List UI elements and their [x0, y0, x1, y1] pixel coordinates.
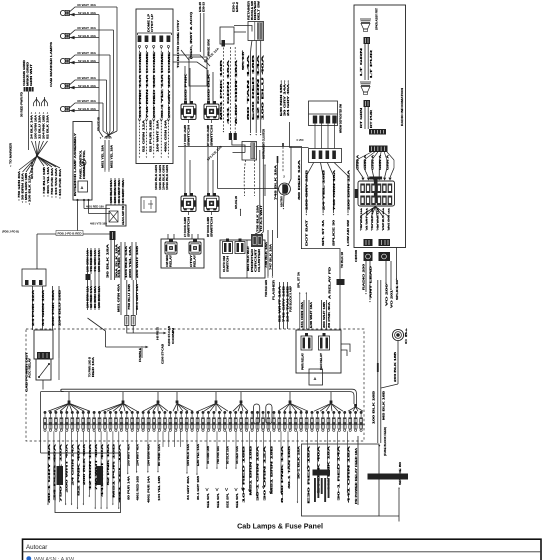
wire B+ drop — [381, 341, 398, 388]
wire relay feed — [32, 286, 35, 330]
label instrument cluster — [262, 129, 265, 159]
svg-text:441 PUR 40A: 441 PUR 40A — [59, 169, 62, 196]
wire cluster pc a — [259, 150, 261, 232]
label radio information — [400, 88, 404, 126]
wire cluster pin feed a — [227, 47, 230, 133]
svg-text:30 WHT 40A: 30 WHT 40A — [77, 76, 96, 80]
svg-text:A: A — [81, 185, 84, 190]
svg-text:34 GRY 40A: 34 GRY 40A — [187, 476, 190, 500]
cluster dimmer box — [220, 240, 265, 278]
svg-text:RADIO INFORMATION: RADIO INFORMATION — [400, 88, 404, 126]
label LT door jamb — [184, 124, 191, 146]
label lt grn — [360, 47, 363, 76]
svg-text:200 WHT 40A: 200 WHT 40A — [128, 444, 131, 466]
svg-text:HEADLAMP SW: HEADLAMP SW — [122, 205, 125, 225]
dome feed wire label — [146, 51, 149, 118]
wire cab feed — [87, 248, 90, 274]
wire cluster pc b — [262, 150, 264, 232]
svg-text:34 GRY 40A: 34 GRY 40A — [122, 180, 125, 203]
label fuse block feed — [384, 427, 387, 456]
svg-text:SWITCH: SWITCH — [211, 216, 214, 237]
wire lighter feed — [218, 188, 279, 190]
connector C-12 — [24, 87, 34, 92]
wire marker lamp 2 return — [98, 37, 100, 39]
label 750 BLK — [257, 205, 260, 232]
svg-text:104 YEL 16B: 104 YEL 16B — [158, 476, 161, 501]
connector bar C-200 — [313, 470, 331, 476]
labels r3 feeds — [301, 301, 331, 328]
svg-text:30-1 YEL 14A DOME: 30-1 YEL 14A DOME — [161, 51, 164, 118]
label dimmer control — [83, 149, 86, 179]
svg-text:E30 WHT 16A: E30 WHT 16A — [310, 301, 313, 328]
dome feed wire label 2 — [151, 119, 153, 152]
cab marker lamp L1 — [60, 3, 117, 16]
label CAB MARKER LAMPS — [49, 42, 53, 87]
cab marker lamp L5 — [60, 99, 103, 112]
svg-text:30-1 WHT 40A: 30-1 WHT 40A — [118, 180, 121, 203]
dome feed pin 2 — [145, 36, 149, 159]
svg-text:C200 ST-CAB: C200 ST-CAB — [168, 326, 171, 346]
wire lamp ground bus — [98, 15, 100, 117]
wire splice drop — [88, 318, 149, 348]
wire FLASHER — [269, 230, 273, 278]
antenna connector B2 — [379, 252, 391, 261]
cluster feed pins — [229, 133, 237, 140]
wire radio tail e — [396, 248, 399, 301]
svg-text:Cab Lamps & Fuse Panel: Cab Lamps & Fuse Panel — [237, 522, 323, 531]
label RT jamb lower — [207, 216, 214, 237]
cab marker lamp L4 — [60, 76, 106, 89]
wire marker lamp 2 feed — [106, 30, 114, 139]
svg-text:TO BLK 18: TO BLK 18 — [341, 251, 344, 268]
svg-text:Autocar: Autocar — [26, 544, 47, 551]
labels retainer buckle — [248, 0, 261, 20]
svg-text:SPLICE 80: SPLICE 80 — [397, 279, 399, 300]
svg-text:748 BRN 18A: 748 BRN 18A — [360, 207, 363, 230]
dome feed wire label — [168, 51, 171, 118]
wire fusible up — [140, 346, 143, 362]
svg-text:LT DOOR JAMB: LT DOOR JAMB — [184, 217, 187, 237]
dimmer connector A — [223, 239, 233, 254]
svg-text:441 RED 18B: 441 RED 18B — [90, 250, 93, 272]
courtesy relay — [189, 239, 201, 254]
svg-text:746 BLK 18A: 746 BLK 18A — [265, 242, 268, 268]
svg-text:100 BLK 12A: 100 BLK 12A — [28, 175, 31, 202]
svg-text:52 PUR 16B: 52 PUR 16B — [151, 119, 153, 152]
wire accessory drop — [305, 163, 313, 247]
svg-text:RETAINER: RETAINER — [248, 0, 251, 20]
wire MS1 a — [104, 140, 106, 172]
wire r3 feeds — [304, 300, 327, 330]
svg-text:C 250: C 250 — [297, 138, 304, 142]
svg-text:100 BRN 12A: 100 BRN 12A — [98, 285, 101, 308]
wire from C-12 — [28, 92, 30, 151]
splice 10A — [173, 55, 211, 69]
label window defroster — [340, 103, 343, 133]
dome feed pin 5 — [167, 36, 171, 159]
dome lamp bracket — [138, 33, 172, 35]
wire jamb feeds — [185, 66, 213, 104]
svg-text:ACC RELAY: ACC RELAY — [29, 357, 32, 378]
label power feed — [21, 92, 24, 117]
wire cab feed — [98, 248, 101, 280]
wire ign feed — [298, 148, 344, 331]
accessory labels — [280, 80, 290, 116]
svg-text:52 BLK 40A: 52 BLK 40A — [78, 107, 96, 111]
svg-text:SEE SPL: SEE SPL — [217, 492, 220, 508]
interior lamp assembly box — [73, 122, 92, 201]
wire cluster down b — [253, 160, 255, 196]
wire PDB feed — [37, 234, 112, 269]
wire relay feed — [52, 286, 55, 330]
svg-text:34 GRN 18A: 34 GRN 18A — [42, 289, 45, 326]
svg-text:FUS BLOCK 5 AMP: FUS BLOCK 5 AMP — [290, 286, 293, 312]
svg-text:104 BLK 14A: 104 BLK 14A — [125, 245, 128, 278]
wire 748 BLK — [274, 156, 278, 238]
wire radio out drops — [361, 207, 389, 229]
svg-text:441 ORN 40A: 441 ORN 40A — [301, 301, 304, 328]
label a relay — [329, 266, 332, 299]
splice S-6 label — [30, 161, 34, 179]
radio out labels — [360, 207, 391, 230]
label CD500 — [355, 249, 358, 262]
svg-text:52 BLK 40A: 52 BLK 40A — [78, 59, 96, 63]
dome feed wire label — [153, 51, 156, 118]
wire fus links feed — [121, 280, 137, 316]
label speaker assy — [376, 7, 379, 30]
svg-text:30 ORN 12A: 30 ORN 12A — [263, 445, 266, 501]
svg-text:80 PUR 14A: 80 PUR 14A — [128, 476, 131, 500]
fuse bus tap node 69 — [48, 392, 90, 412]
dome feed wire label 2 — [157, 119, 160, 152]
wire TWR — [265, 230, 269, 278]
svg-text:MS1 BRN 18B: MS1 BRN 18B — [249, 445, 252, 495]
svg-text:104A BLK GRN: 104A BLK GRN — [159, 165, 162, 190]
wire cab feed — [94, 248, 97, 280]
relay R3 connector A — [301, 333, 312, 350]
cab marker relay — [165, 239, 177, 254]
wire fuse link feed — [136, 242, 139, 280]
svg-text:VO 201: VO 201 — [392, 288, 394, 308]
svg-text:DOT BAT: DOT BAT — [305, 219, 308, 246]
svg-text:FUSIBLE: FUSIBLE — [140, 347, 142, 362]
svg-text:E30 YEL 14A: E30 YEL 14A — [197, 444, 200, 466]
fusible link FL1 — [125, 316, 129, 326]
svg-text:12 BRN 18A: 12 BRN 18A — [89, 443, 92, 490]
wire interior lamp aux — [89, 200, 111, 226]
label MS1 YEL 18A — [102, 145, 105, 168]
label top lnd — [89, 356, 96, 377]
svg-text:104A BLK GRN: 104A BLK GRN — [155, 165, 158, 190]
footer table — [23, 539, 542, 560]
svg-text:MS1 BLK WHT: MS1 BLK WHT — [248, 245, 250, 271]
svg-text:WNDW DEFROSTER SW: WNDW DEFROSTER SW — [340, 103, 343, 133]
fuse block feed lines — [378, 280, 381, 443]
wire radio tail d — [390, 261, 393, 308]
wire radio out arrows — [360, 230, 389, 231]
junction box WHSE BRK — [181, 39, 210, 86]
wire label 104A — [159, 165, 162, 190]
splice S-6 branch — [18, 156, 37, 201]
svg-text:30 BLK 18A: 30 BLK 18A — [107, 243, 110, 278]
svg-text:12 BLU 18A: 12 BLU 18A — [38, 115, 41, 139]
radio bottom connector B — [379, 239, 391, 246]
wire headlamp switch feed — [110, 178, 113, 205]
svg-text:52 BLK 40A: 52 BLK 40A — [78, 11, 96, 15]
dome lamp symbol — [80, 160, 86, 166]
svg-text:100 WHT 16A: 100 WHT 16A — [157, 119, 160, 152]
wire relay feeds — [168, 234, 198, 239]
radio harness labels — [356, 154, 389, 170]
svg-text:SPL ST 3A: SPL ST 3A — [297, 272, 300, 288]
wire splice 10B drop — [217, 147, 219, 189]
wire fuse link feed — [125, 242, 128, 280]
wire retainer down a — [250, 41, 252, 136]
wire jamb feeds 2 — [185, 147, 213, 197]
wire marker lamp 4 feed — [107, 80, 111, 139]
wire splice 29 — [240, 209, 242, 217]
seat belt connector — [248, 22, 264, 41]
svg-text:104 WHT 40A: 104 WHT 40A — [137, 444, 140, 466]
svg-text:GRN A: GRN A — [379, 154, 382, 170]
door switch box — [141, 197, 156, 212]
svg-text:104 BRN 40A: 104 BRN 40A — [148, 444, 151, 466]
svg-text:LOW AIR SW: LOW AIR SW — [347, 219, 350, 246]
fuse feed splice — [377, 363, 379, 372]
headlamp switch — [106, 205, 126, 226]
wire cluster pin feed b — [235, 47, 238, 133]
radio information box — [354, 5, 406, 248]
wire fus link out — [127, 326, 160, 334]
svg-text:748 BLK 18A: 748 BLK 18A — [274, 164, 277, 200]
svg-text:SPLICE 9B: SPLICE 9B — [97, 117, 101, 131]
interior lamp box pins — [77, 199, 90, 201]
splice 29 label — [235, 195, 238, 209]
splice S-9B label — [97, 117, 101, 131]
svg-text:TO MARKER: TO MARKER — [10, 143, 13, 164]
svg-text:RED 10A: RED 10A — [92, 356, 95, 377]
svg-text:8-80 FUS LK: 8-80 FUS LK — [157, 327, 160, 340]
svg-text:C200 ST-CAB: C200 ST-CAB — [162, 344, 165, 364]
svg-text:CLUSTER: CLUSTER — [259, 248, 261, 272]
wire c30 down — [220, 44, 224, 133]
svg-text:SPLICE 30: SPLICE 30 — [333, 219, 336, 246]
wire speaker pair 2 — [365, 107, 368, 129]
wire label column — [30, 112, 33, 139]
label MS2 YEL 18A — [111, 145, 114, 168]
fuse bus tap node 216 — [198, 392, 228, 412]
label cab marker relay — [166, 254, 173, 267]
node lamp splice — [99, 117, 103, 139]
wire pc feeds — [255, 232, 263, 234]
labels fus link feeds — [118, 283, 139, 312]
label RT door jamb — [207, 124, 214, 146]
splice 10B label — [0, 0, 1, 1]
svg-text:104 PNK 16B: 104 PNK 16B — [42, 115, 45, 139]
wire marker lamp 3 return — [98, 62, 100, 64]
wire r3 out — [341, 344, 350, 356]
svg-text:4901 GRN 14A: 4901 GRN 14A — [164, 119, 167, 152]
svg-text:30 ORN 18B: 30 ORN 18B — [207, 446, 210, 464]
svg-text:E30-1: E30-1 — [234, 1, 236, 12]
svg-text:E30 BRN 18A: E30 BRN 18A — [114, 180, 117, 203]
svg-text:104A BLK GRN: 104A BLK GRN — [166, 165, 169, 190]
svg-text:MS BLK 16B: MS BLK 16B — [382, 390, 385, 420]
radio connector row 1 — [369, 129, 386, 135]
label LT jamb lower — [184, 216, 191, 237]
svg-text:34 GRY 40A: 34 GRY 40A — [366, 207, 369, 230]
wire instrument cluster arrow — [264, 164, 266, 196]
dome lamp feed box — [136, 9, 173, 164]
wire accessory drop — [334, 163, 350, 247]
svg-text:BELT SW: BELT SW — [258, 0, 260, 20]
wire label column — [46, 112, 49, 139]
svg-text:ASH TRAY: ASH TRAY — [280, 196, 283, 207]
fuse label block 1 — [57, 466, 64, 485]
wire headlamp switch feed — [122, 178, 125, 205]
svg-text:748 BRN 12A: 748 BRN 12A — [377, 207, 380, 230]
wire MS1 b — [108, 140, 110, 172]
label C 250 — [297, 138, 304, 142]
defroster pins — [313, 116, 337, 124]
wire label 104A — [166, 165, 169, 190]
printed circuit connector — [251, 234, 263, 247]
svg-text:104 RED 16B: 104 RED 16B — [242, 445, 245, 503]
svg-text:750 PUR 18A: 750 PUR 18A — [51, 168, 54, 195]
svg-text:30 PNK 40A: 30 PNK 40A — [328, 301, 331, 328]
svg-text:SWITCH: SWITCH — [228, 255, 230, 272]
svg-text:100 BRN 12A: 100 BRN 12A — [347, 169, 350, 210]
left loop bottom — [41, 452, 55, 454]
svg-text:TO A-1 WHT: TO A-1 WHT — [260, 204, 263, 232]
svg-text:SPKR ASSY FRT: SPKR ASSY FRT — [376, 7, 379, 30]
svg-text:100 GRY 18B: 100 GRY 18B — [306, 169, 309, 210]
svg-text:748 BLU 16B: 748 BLU 16B — [43, 167, 46, 194]
connector block C-100 — [22, 269, 46, 286]
svg-text:GRN A: GRN A — [356, 154, 359, 170]
wire relay feed — [42, 286, 45, 330]
svg-text:PWR RELAY: PWR RELAY — [302, 352, 305, 370]
svg-text:30-1 TAN 16B: 30-1 TAN 16B — [288, 445, 291, 489]
svg-text:CLSTR DIM: CLSTR DIM — [224, 256, 226, 272]
svg-text:RT DOOR JAMB: RT DOOR JAMB — [207, 125, 210, 146]
label TO A-1 — [260, 204, 263, 232]
svg-text:104A BLK GRN: 104A BLK GRN — [162, 165, 165, 190]
svg-text:441 GRN 14A: 441 GRN 14A — [94, 250, 97, 272]
wire loop left — [41, 392, 64, 453]
wire marker lamp 5 feed — [103, 103, 112, 139]
svg-text:C B+: C B+ — [405, 327, 408, 344]
label rt pur — [370, 109, 373, 128]
svg-text:52 PNK 16A: 52 PNK 16A — [107, 443, 110, 485]
cluster feed connector — [242, 142, 257, 161]
wire interior lamp 4901 — [84, 200, 110, 209]
svg-text:IGN RELAY: IGN RELAY — [320, 352, 323, 370]
fuse bus tap node 331 — [314, 392, 343, 412]
svg-text:52 WHT 16A: 52 WHT 16A — [279, 285, 282, 322]
battery stud B+ — [392, 329, 403, 340]
splice S-6 branch — [37, 156, 58, 198]
dome feed wire label 2 — [143, 119, 146, 152]
wire marker lamp 1 feed — [104, 7, 117, 139]
svg-text:24 GRN 14A: 24 GRN 14A — [71, 443, 74, 485]
svg-text:RELAY: RELAY — [194, 254, 197, 267]
label r3 a — [302, 352, 305, 370]
junction fan — [41, 97, 48, 107]
svg-text:748 ORN 18A: 748 ORN 18A — [333, 169, 336, 210]
speaker connector 2 — [364, 100, 371, 107]
svg-text:30-1 RED 14A: 30-1 RED 14A — [337, 445, 340, 500]
svg-text:80 TAN 14A: 80 TAN 14A — [247, 54, 250, 120]
splice S-6 branch — [37, 156, 62, 199]
label TO RH FTR DOME — [177, 19, 180, 68]
svg-text:RELAY: RELAY — [170, 254, 173, 267]
svg-text:748 PNK 18A: 748 PNK 18A — [217, 446, 220, 464]
wire retainer down c — [260, 41, 262, 136]
svg-text:LT GRN: LT GRN — [360, 47, 363, 76]
speaker front RH — [360, 82, 371, 95]
svg-text:52 BLK 18A: 52 BLK 18A — [46, 115, 49, 139]
svg-text:4901 RED 16B: 4901 RED 16B — [137, 476, 140, 501]
svg-text:INSTRUMENT CLUSTER: INSTRUMENT CLUSTER — [262, 129, 265, 159]
labels retainer wires — [247, 54, 264, 120]
label cab power dist — [26, 351, 29, 392]
svg-text:MS1 YEL 18A: MS1 YEL 18A — [102, 145, 105, 168]
svg-text:SWITCH: SWITCH — [188, 216, 191, 237]
fuse bus tap node 123 — [101, 392, 137, 412]
svg-text:FLASHER: FLASHER — [273, 280, 276, 300]
svg-text:SWITCH: SWITCH — [188, 124, 191, 146]
svg-text:RT GRN: RT GRN — [360, 107, 363, 128]
label printed circuit — [252, 248, 261, 272]
svg-text:750 RED 18B: 750 RED 18B — [372, 207, 374, 230]
wire cluster down a — [244, 160, 245, 196]
wire label 104A — [155, 165, 158, 190]
label accessory relay — [29, 357, 32, 378]
svg-text:30-1 GRY 18B: 30-1 GRY 18B — [197, 476, 200, 500]
label c200 st-cab — [162, 344, 165, 364]
svg-text:200 YEL 18A: 200 YEL 18A — [129, 245, 132, 278]
svg-text:104 BLK 14A: 104 BLK 14A — [187, 444, 190, 466]
svg-text:30-1 GRN 16A: 30-1 GRN 16A — [256, 445, 259, 501]
wire mid dist — [94, 280, 97, 310]
svg-text:104 TAN 18A: 104 TAN 18A — [55, 168, 58, 195]
connector bar C-201 — [368, 474, 409, 480]
svg-text:PRINTED: PRINTED — [252, 248, 254, 272]
speaker connector 1 — [364, 37, 371, 44]
door jamb switch LT — [181, 101, 196, 123]
svg-text:E30 RED 18A: E30 RED 18A — [307, 445, 310, 504]
dome feed pin 1 — [138, 36, 142, 159]
connector block C-30 — [220, 27, 234, 47]
svg-text:CD500: CD500 — [355, 249, 358, 262]
label lt pur — [370, 49, 373, 78]
accessory connector — [309, 149, 342, 163]
wire marker lamp 4 return — [98, 87, 100, 89]
wire fuse feed arrow — [378, 445, 380, 447]
svg-text:GRN A: GRN A — [364, 154, 367, 170]
svg-text:RADIO 200: RADIO 200 — [363, 262, 366, 290]
wire mid dist — [90, 280, 93, 310]
fuse bus tap right — [348, 404, 363, 411]
cigar lighter — [279, 175, 291, 195]
svg-text:DIMMER CTRL: DIMMER CTRL — [83, 149, 86, 179]
wire speaker pair 1 — [365, 44, 368, 80]
svg-text:LT PUR: LT PUR — [370, 49, 373, 78]
svg-text:12 GRN 14A: 12 GRN 14A — [257, 54, 260, 120]
svg-text:A: A — [314, 376, 317, 381]
splice S-6 branch — [25, 156, 37, 203]
